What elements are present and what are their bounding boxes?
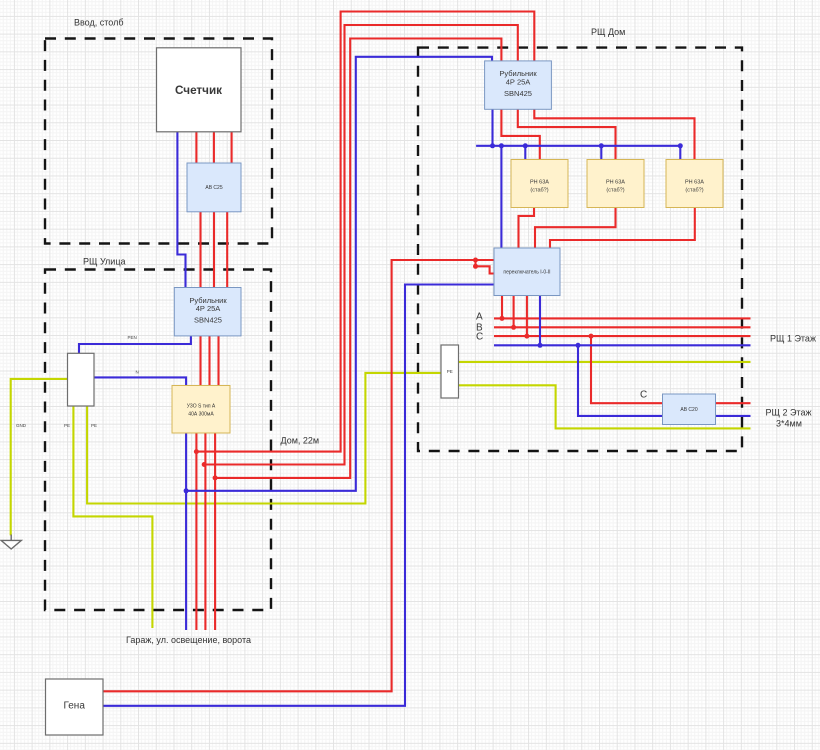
svg-text:РН 63А: РН 63А xyxy=(685,180,704,186)
svg-text:С: С xyxy=(640,390,647,401)
svg-text:РЩ Улица: РЩ Улица xyxy=(83,257,126,267)
svg-text:40А 300мА: 40А 300мА xyxy=(188,412,214,418)
svg-text:PE: PE xyxy=(64,423,70,428)
svg-text:РЩ 1 Этаж: РЩ 1 Этаж xyxy=(770,334,816,344)
svg-text:SBN425: SBN425 xyxy=(504,89,532,98)
svg-text:С: С xyxy=(476,331,483,342)
svg-text:РН 63А: РН 63А xyxy=(606,180,625,186)
svg-text:N: N xyxy=(136,370,139,375)
svg-text:PE: PE xyxy=(91,423,97,428)
svg-text:УЗО S тип А: УЗО S тип А xyxy=(187,404,216,410)
svg-text:4Р 25А: 4Р 25А xyxy=(196,304,221,313)
svg-text:4Р 25А: 4Р 25А xyxy=(506,77,531,86)
svg-text:Дом, 22м: Дом, 22м xyxy=(281,435,320,445)
svg-text:Ввод, столб: Ввод, столб xyxy=(74,18,123,28)
svg-text:РЩ Дом: РЩ Дом xyxy=(591,27,625,37)
svg-text:(стаб?): (стаб?) xyxy=(606,188,624,194)
svg-text:3*4мм: 3*4мм xyxy=(776,418,802,428)
svg-text:А: А xyxy=(476,311,483,322)
svg-text:SBN425: SBN425 xyxy=(194,315,222,324)
svg-text:АВ С20: АВ С20 xyxy=(680,407,697,413)
svg-text:PEN: PEN xyxy=(128,335,137,340)
svg-text:GND: GND xyxy=(16,423,27,428)
svg-text:Гараж, ул. освещение, ворота: Гараж, ул. освещение, ворота xyxy=(126,635,251,645)
svg-text:Счетчик: Счетчик xyxy=(175,84,222,97)
svg-text:РН 63А: РН 63А xyxy=(530,180,549,186)
svg-text:АВ С25: АВ С25 xyxy=(205,185,222,191)
svg-text:РЩ 2 Этаж: РЩ 2 Этаж xyxy=(766,408,812,418)
svg-text:PE: PE xyxy=(447,369,453,374)
svg-text:Гена: Гена xyxy=(63,701,85,712)
svg-text:переключатель I-0-II: переключатель I-0-II xyxy=(503,270,550,276)
svg-text:(стаб?): (стаб?) xyxy=(530,188,548,194)
svg-text:(стаб?): (стаб?) xyxy=(685,188,703,194)
